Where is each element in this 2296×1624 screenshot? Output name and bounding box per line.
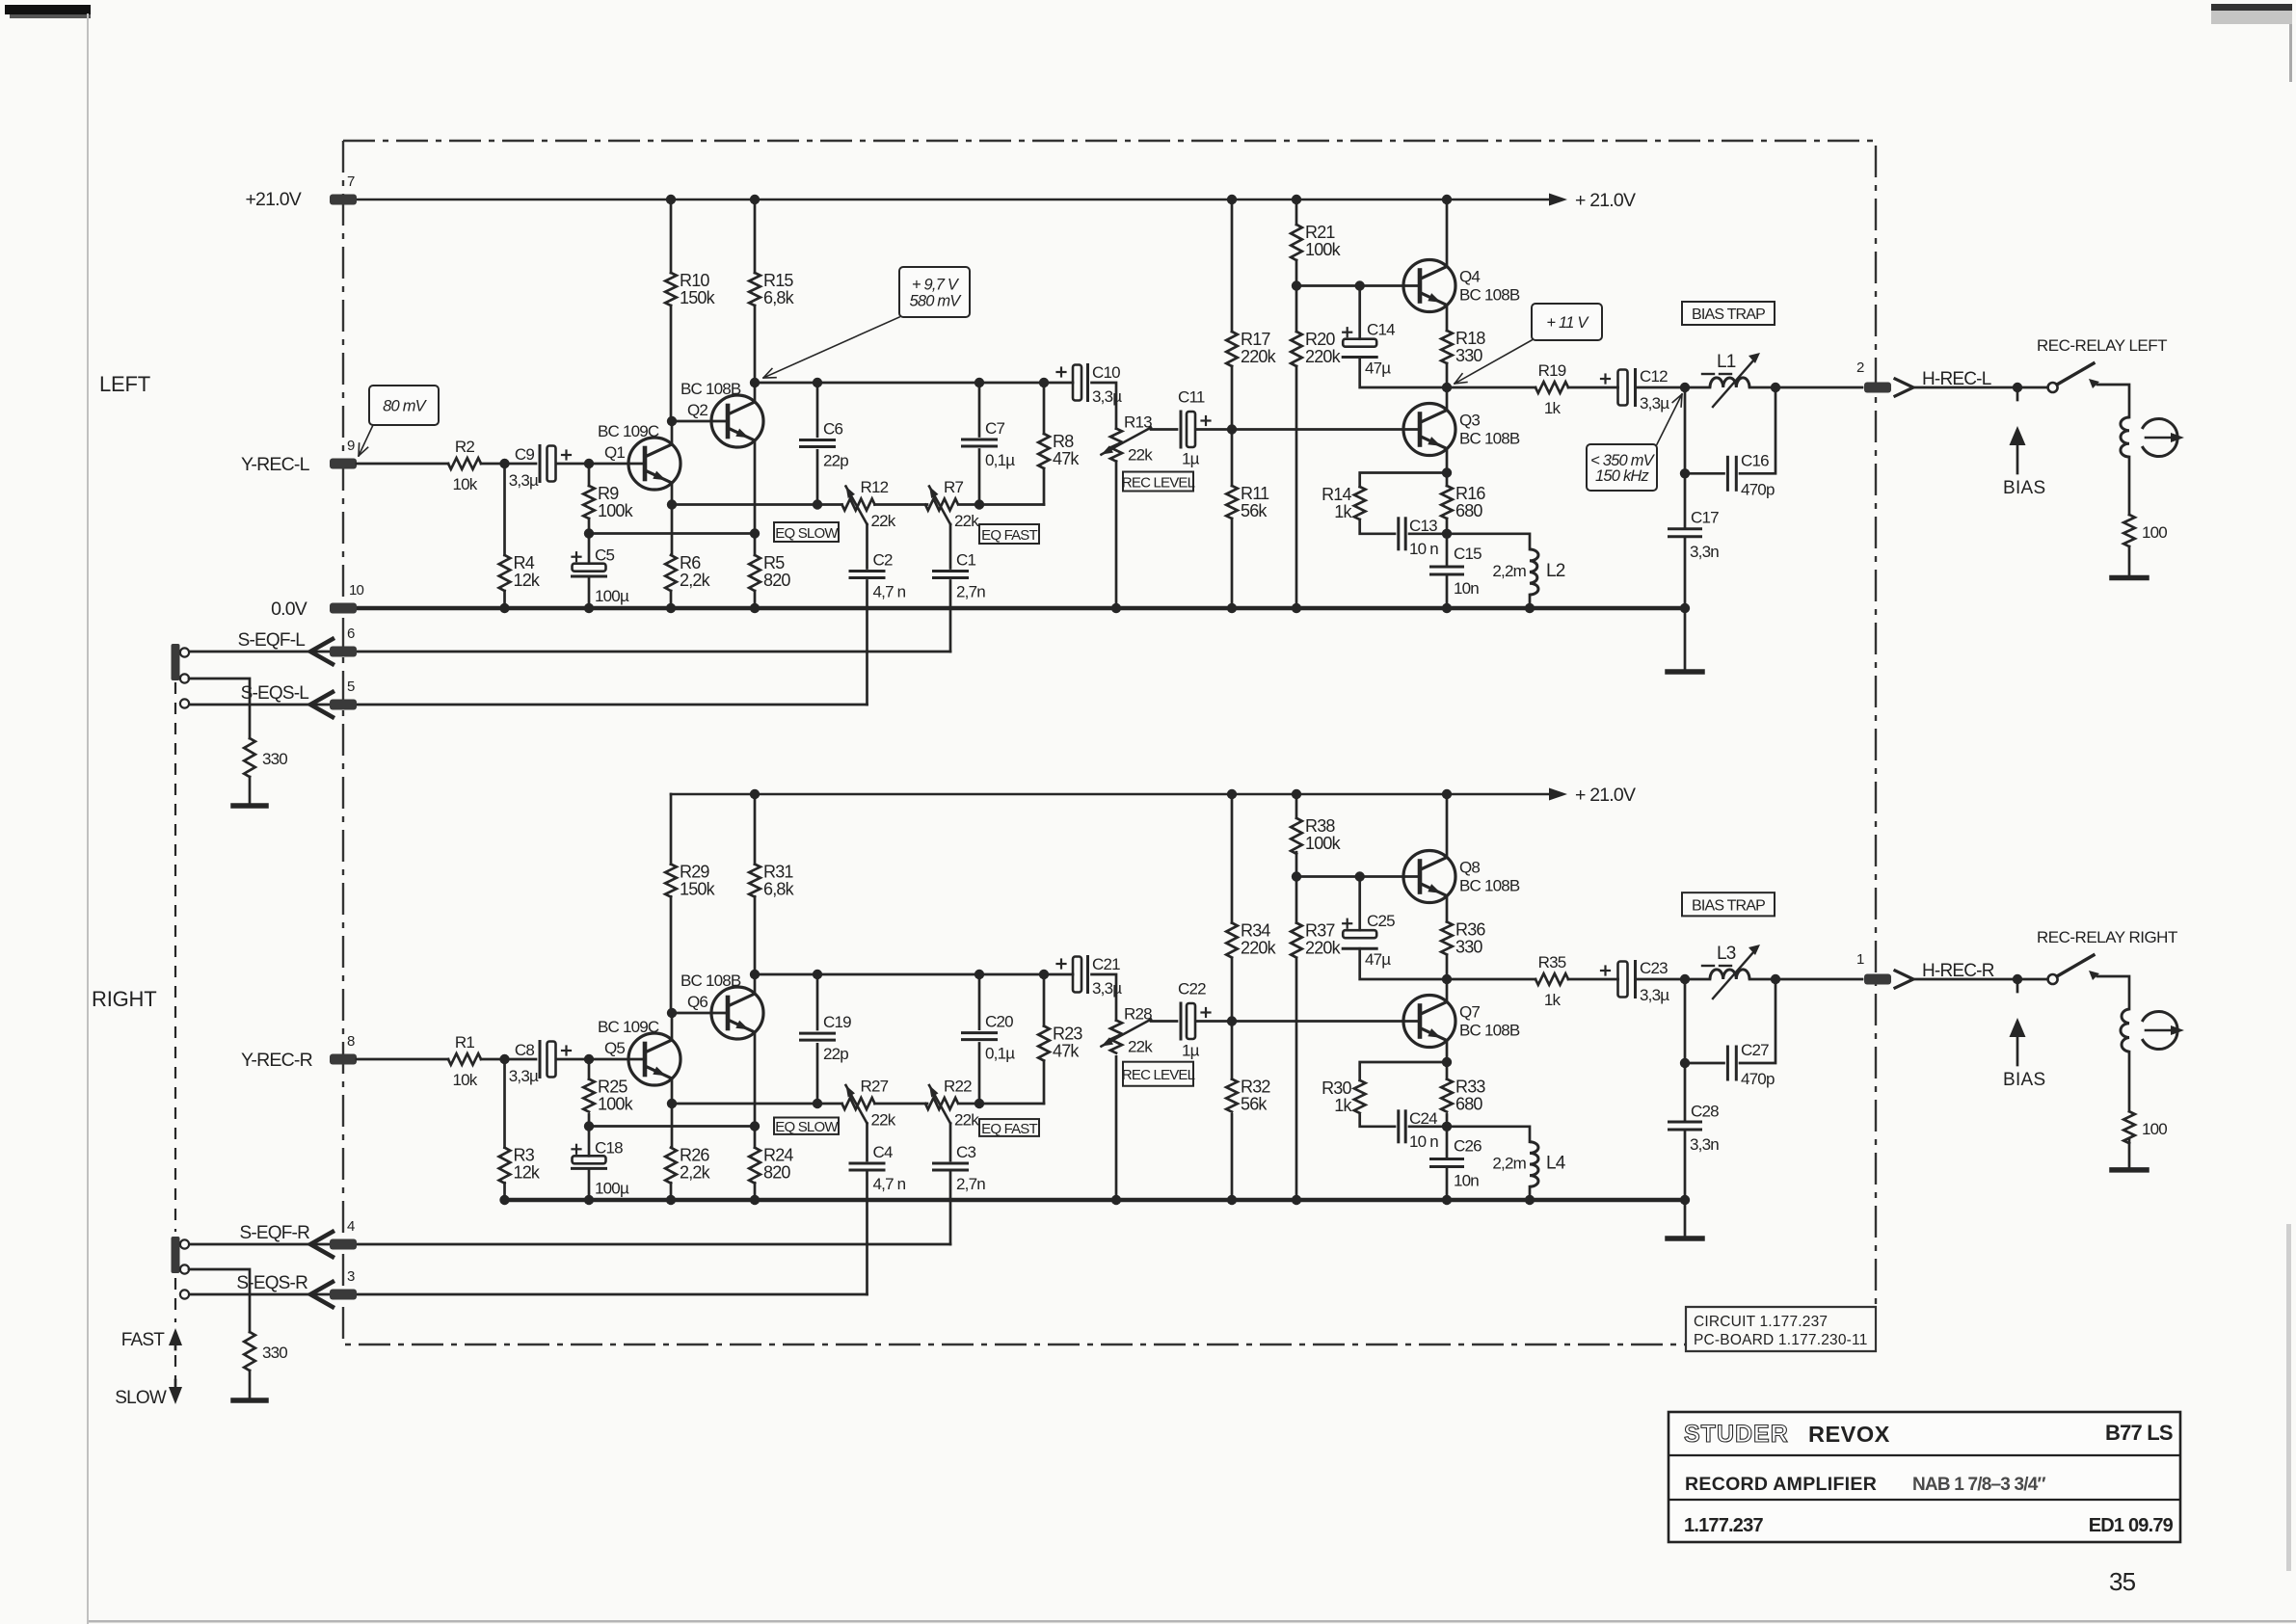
capacitor C14 (1343, 339, 1376, 347)
junction Rb2/0V (1227, 1195, 1237, 1205)
wire H-REC to relay (1913, 386, 2048, 389)
wire signal to Rb2 (1231, 430, 1234, 487)
junction Cr/0V (1442, 603, 1452, 613)
wire Ct2 top (1684, 473, 1687, 527)
junction Rb2/0V (1227, 603, 1237, 613)
svg-text:REC LEVEL: REC LEVEL (1122, 1067, 1195, 1083)
svg-text:R28: R28 (1124, 1005, 1152, 1024)
svg-text:6: 6 (347, 626, 355, 642)
arrow signal direction H-REC-L (1895, 379, 1913, 396)
svg-text:3: 3 (347, 1268, 355, 1285)
svg-text:C16: C16 (1741, 451, 1769, 469)
capacitor C26 (1431, 1158, 1463, 1160)
junction Rmid top (1039, 378, 1049, 387)
svg-text:3,3µ: 3,3µ (1640, 394, 1669, 413)
relay contact arrowhead (2089, 379, 2099, 388)
transistor Q3 (1403, 404, 1455, 456)
ground head L (2112, 575, 2147, 581)
wire Rc1 to Q1 collector node (670, 306, 673, 421)
resistor R6 (665, 555, 677, 591)
svg-text:REVOX: REVOX (1808, 1422, 1890, 1447)
bias arrowhead (2010, 1018, 2026, 1037)
transistor Q6 (711, 987, 763, 1039)
potentiometer R7 wiper (929, 487, 950, 525)
wire Rin to Cin (481, 1058, 536, 1061)
terminal pin 5 (S-EQS-L) (330, 700, 357, 710)
svg-text:10k: 10k (452, 475, 477, 493)
wire Q1 collector (671, 1013, 674, 1040)
terminal pin 9 (Y-REC-L) (330, 459, 357, 469)
wire Qo emitter (1446, 1041, 1449, 1063)
terminal pin 2 (H-REC-L) (1864, 383, 1891, 393)
svg-text:L4: L4 (1546, 1154, 1566, 1174)
svg-text:R13: R13 (1124, 413, 1152, 432)
label box BIAS TRAP (1682, 302, 1775, 325)
svg-text:C9: C9 (515, 445, 534, 464)
svg-text:3,3µ: 3,3µ (509, 471, 539, 490)
svg-text:R9: R9 (598, 484, 619, 503)
arrow S-EQS-L pin (310, 692, 333, 717)
junction Rmid top (1039, 970, 1049, 979)
terminal pin 3 (S-EQS-R) (330, 1290, 357, 1300)
wire Rsh to 0V (503, 591, 506, 608)
svg-text:820: 820 (763, 1163, 790, 1183)
wire pot line (672, 1103, 842, 1105)
resistor R17 (1226, 332, 1238, 366)
wire trap node down (1684, 979, 1687, 1063)
capacitor C27 (1726, 1047, 1729, 1079)
junction Rb4/0V (1292, 1195, 1301, 1205)
svg-text:FAST: FAST (121, 1330, 166, 1350)
wire Rc1 to Q1 collector node (670, 896, 673, 1013)
wire input node to Rsh (503, 464, 506, 555)
junction Cin/Rfb (584, 1054, 594, 1064)
capacitor C18 (573, 1156, 606, 1163)
capacitor C17 (1669, 527, 1701, 530)
junction Rb1/Rb2 on signal (1227, 424, 1237, 434)
wire Rb4 to 0V (1295, 366, 1298, 608)
svg-text:100k: 100k (598, 501, 634, 520)
wire Rin to Cin (481, 463, 536, 466)
wire Re2 to 0V (754, 1183, 757, 1200)
wire Cc top (816, 383, 819, 437)
wire Rb3 to base node (1295, 260, 1298, 286)
junction Cb/base (1355, 871, 1365, 881)
callout <350mV 150kHz (1587, 444, 1657, 491)
junction rail/Rb1 (1227, 195, 1237, 204)
svg-text:EQ SLOW: EQ SLOW (775, 1119, 839, 1135)
svg-text:R3: R3 (514, 1146, 535, 1165)
bias injection arrow (2016, 387, 2019, 400)
svg-text:220k: 220k (1241, 939, 1277, 958)
svg-text:R18: R18 (1455, 329, 1485, 348)
resistor R1 (448, 1053, 481, 1065)
wire trap node to L (1685, 978, 1710, 981)
wire Ce to 0V (588, 1168, 591, 1200)
svg-text:470p: 470p (1741, 1070, 1775, 1088)
wire Rc2 to Q2 collector (754, 306, 757, 383)
resistor R34 (1226, 923, 1238, 958)
wire PotS wiper to CnS (866, 1124, 868, 1161)
svg-text:R38: R38 (1305, 816, 1335, 836)
svg-text:9: 9 (347, 438, 355, 454)
wire Q2 emitter leg (754, 441, 757, 555)
relay switch REC-RELAY LEFT (2048, 383, 2058, 392)
wire input node to Rsh (503, 1059, 506, 1148)
resistor R18 (1441, 331, 1453, 363)
svg-text:R5: R5 (763, 553, 785, 572)
resistor R20 (1291, 332, 1302, 366)
wire PotL wiper to Cser (1151, 428, 1177, 431)
svg-text:22k: 22k (1128, 446, 1153, 465)
potentiometer R28 (REC LEVEL) wiper (1102, 1020, 1152, 1047)
wire pole to 330 resistor (189, 1269, 250, 1332)
resistor 100 (L) (2123, 515, 2135, 546)
resistor R16 (1441, 486, 1453, 519)
resistor R36 (1441, 921, 1453, 954)
wire Qo emitter to Re3 (1446, 473, 1449, 487)
junction Rb3/base (1292, 871, 1301, 881)
wire S-EQS-R (189, 1293, 868, 1296)
junction Q1coll/Q2base (667, 1008, 677, 1018)
junction 0V rail / bias trap ground (1680, 603, 1690, 613)
svg-text:R34: R34 (1241, 921, 1270, 941)
wire pole to 330 resistor (189, 679, 250, 738)
resistor R3 (499, 1148, 511, 1184)
junction bias injection (2013, 383, 2022, 392)
ground bias trap L (1668, 669, 1702, 675)
svg-text:C28: C28 (1691, 1103, 1719, 1121)
capacitor C6 (801, 439, 835, 441)
wire trap node to L (1685, 386, 1710, 389)
wire Qo emitter (1446, 449, 1449, 473)
wire S-EQF-L (189, 651, 950, 653)
wire Lr to 0V (1529, 595, 1532, 608)
inductor L4 (1530, 1142, 1538, 1186)
svg-text:C24: C24 (1409, 1109, 1437, 1128)
svg-text:2,2m: 2,2m (1492, 1155, 1526, 1173)
svg-text:BC 108B: BC 108B (1459, 1022, 1520, 1040)
wire H-REC to relay (1913, 978, 2048, 981)
scan mark top-left black bar (5, 5, 91, 14)
record head symbol R (2142, 1012, 2177, 1050)
junction Re2/0V (750, 1195, 760, 1205)
potentiometer R12 wiper (846, 487, 868, 525)
wire Q1 emitter to Re1 (671, 1104, 674, 1148)
adjust arrow L1 (1713, 359, 1754, 407)
capacitor C7 (963, 439, 997, 441)
wire relay to head (2097, 976, 2129, 1009)
capacitor C8 (539, 1042, 542, 1078)
svg-text:EQ FAST: EQ FAST (981, 1121, 1037, 1137)
svg-text:ED1 09.79: ED1 09.79 (2089, 1515, 2174, 1536)
wire Rb2 to 0V (1231, 519, 1234, 608)
svg-text:R20: R20 (1305, 330, 1335, 349)
resistor R26 (665, 1148, 677, 1184)
wire Rb4 to 0V (1295, 958, 1298, 1200)
junction Q1emitter/potline (667, 499, 677, 509)
svg-text:1k: 1k (1334, 502, 1352, 521)
svg-text:3,3µ: 3,3µ (1640, 986, 1669, 1004)
wire emitter node to Rr (1360, 1062, 1447, 1080)
junction rail/Rc2 (750, 195, 760, 204)
terminal pin 10 (0V) (330, 603, 357, 614)
wire to Rfb (588, 464, 591, 486)
wire output to Rout (1447, 978, 1535, 981)
wire S-EQF-R (189, 1243, 950, 1246)
svg-text:Q3: Q3 (1459, 412, 1480, 430)
wire CnF down to S-EQF (949, 581, 952, 652)
svg-text:R26: R26 (680, 1146, 709, 1165)
svg-text:BC 108B: BC 108B (1459, 430, 1520, 448)
wire Q2 base (672, 1012, 727, 1015)
junction bias injection (2013, 974, 2022, 984)
wire Qef base (1296, 875, 1420, 878)
wire rail to Rb3 (1295, 794, 1298, 818)
terminal pin 7 (+21V) (330, 195, 357, 205)
resistor R38 (1291, 818, 1302, 854)
arrow S-EQF-L pin (310, 639, 333, 664)
bias injection arrow (2016, 979, 2019, 992)
svg-text:100µ: 100µ (595, 587, 629, 605)
wire rail to Rb1 (1231, 794, 1234, 923)
junction input/Rsh (499, 459, 509, 468)
label box REC LEVEL (1123, 1062, 1193, 1086)
title block frame (1669, 1412, 2180, 1542)
wire node to Lr (1447, 1127, 1530, 1142)
capacitor C20 (963, 1031, 997, 1034)
svg-text:100µ: 100µ (595, 1179, 629, 1197)
svg-text:470p: 470p (1741, 480, 1775, 498)
wire Re3 to node (1446, 519, 1449, 534)
callout +11V (1532, 304, 1602, 340)
svg-text:680: 680 (1455, 1095, 1482, 1114)
relay contact arrowhead (2089, 971, 2099, 980)
wire output to Rout (1447, 386, 1535, 389)
wire Rout to Cout2 (1568, 978, 1618, 981)
wire Qo emitter to Re3 (1446, 1062, 1449, 1079)
eq switch fast contact (180, 1239, 189, 1248)
wire Ct2 top (1684, 1063, 1687, 1121)
wire base to Cb (1358, 286, 1361, 339)
capacitor C25 (1343, 930, 1376, 938)
resistor R19 (1535, 382, 1568, 393)
svg-text:Q2: Q2 (687, 401, 707, 419)
svg-text:1k: 1k (1544, 399, 1562, 417)
wire +21 to Rc1 (670, 200, 673, 273)
svg-text:C7: C7 (985, 419, 1004, 438)
wire Ct1 right up (1740, 979, 1775, 1063)
svg-text:R37: R37 (1305, 921, 1335, 941)
svg-text:150k: 150k (680, 288, 716, 307)
svg-text:220k: 220k (1305, 939, 1342, 958)
svg-text:Q8: Q8 (1459, 859, 1480, 877)
wire 330 to ground (249, 1371, 252, 1398)
svg-text:EQ FAST: EQ FAST (981, 527, 1037, 544)
resistor R35 (1535, 973, 1568, 985)
svg-text:1k: 1k (1334, 1096, 1352, 1115)
wire Y-REC input (357, 1058, 448, 1061)
eq switch slow contact (180, 1290, 189, 1298)
wire Rsh to 0V (503, 1183, 506, 1200)
svg-text:22k: 22k (1128, 1038, 1153, 1056)
wire base node to Rb4 (1295, 286, 1298, 333)
svg-text:C1: C1 (956, 551, 975, 570)
svg-text:R36: R36 (1455, 919, 1485, 939)
wire trap to pin (1775, 978, 1862, 981)
svg-text:REC-RELAY LEFT: REC-RELAY LEFT (2037, 336, 2167, 355)
capacitor C22 (1180, 1003, 1183, 1039)
wire CnF down to S-EQF (949, 1173, 952, 1244)
resistor R15 (749, 273, 761, 306)
junction Lr/0V (1525, 1195, 1535, 1205)
label box EQ FAST (979, 524, 1039, 544)
svg-text:22k: 22k (871, 512, 896, 530)
potentiometer R22 body (925, 1098, 958, 1109)
wire trap to pin (1775, 386, 1862, 389)
svg-text:+21.0V: +21.0V (245, 189, 301, 210)
wire S-EQS-L (189, 704, 868, 706)
capacitor C1 (934, 570, 968, 572)
svg-text:2,7n: 2,7n (956, 583, 985, 601)
capacitor C4 (850, 1162, 884, 1165)
svg-text:RIGHT: RIGHT (92, 987, 156, 1011)
arrowhead L1 (1749, 353, 1760, 363)
junction Cc top (813, 970, 822, 979)
svg-text:C25: C25 (1367, 912, 1395, 930)
junction Ct1 left (1680, 1058, 1690, 1068)
capacitor C15 (1431, 566, 1463, 569)
wire Rmid top (1043, 974, 1046, 1026)
wire Rmid top (1043, 383, 1046, 434)
svg-text:C14: C14 (1367, 321, 1395, 339)
wire feedback to Q2 emitter (589, 532, 755, 535)
circuit id box (1686, 1307, 1876, 1351)
svg-text:3,3µ: 3,3µ (509, 1067, 539, 1085)
eq switch linkage dashed line (174, 682, 176, 1380)
svg-text:REC-RELAY RIGHT: REC-RELAY RIGHT (2037, 928, 2177, 946)
svg-text:4,7 n: 4,7 n (873, 583, 906, 601)
svg-text:6,8k: 6,8k (763, 288, 795, 307)
junction trap right (1771, 974, 1780, 984)
wire PotL bottom to 0V (1115, 1056, 1118, 1200)
svg-text:R1: R1 (455, 1033, 474, 1052)
svg-text:R7: R7 (944, 478, 963, 496)
svg-text:1: 1 (1856, 951, 1864, 968)
svg-text:R15: R15 (763, 271, 793, 290)
wire Cb to output node (1360, 358, 1447, 388)
wire PotS wiper to CnS (866, 524, 868, 569)
wire 0V rail right (505, 1198, 1686, 1203)
wire Rfb to feedback node (588, 519, 591, 534)
svg-text:330: 330 (262, 750, 287, 768)
svg-text:2,2m: 2,2m (1492, 562, 1526, 580)
resistor R4 (499, 555, 511, 591)
wire head to R100 (2128, 1052, 2131, 1111)
wire Qef emitter to Ref (1446, 306, 1449, 332)
svg-text:56k: 56k (1241, 501, 1268, 520)
wire feedback to Q2 emitter (589, 1125, 755, 1128)
junction trap left (1680, 383, 1690, 392)
resistor R14 (1354, 487, 1366, 519)
wire CnS down to S-EQS (866, 581, 868, 706)
svg-text:330: 330 (1455, 937, 1482, 956)
wire Cser to Qo base (1197, 428, 1420, 431)
junction Re1/0V (666, 603, 676, 613)
svg-text:S-EQF-R: S-EQF-R (239, 1223, 309, 1243)
scan edge bottom grey line (89, 1620, 2296, 1623)
wire L to trap right (1749, 386, 1775, 389)
wire head to R100 (2128, 457, 2131, 515)
capacitor C3 (934, 1162, 968, 1165)
wire PotF wiper to CnF (949, 1124, 952, 1161)
svg-text:R12: R12 (861, 478, 889, 496)
wire +21V rail right (671, 793, 1550, 796)
svg-text:1k: 1k (1544, 991, 1562, 1009)
terminal pin 1 (H-REC-R) (1864, 974, 1891, 985)
svg-text:22p: 22p (823, 452, 848, 470)
svg-text:R31: R31 (763, 863, 793, 882)
wire Cin to Q1 base (557, 463, 645, 466)
wire collector line (755, 382, 1073, 385)
wire Re1 to 0V (670, 1183, 673, 1200)
resistor 330 (left) (244, 738, 255, 777)
wire Q2 base (672, 420, 727, 423)
svg-text:+ 11 V: + 11 V (1546, 314, 1589, 332)
svg-text:35: 35 (2109, 1567, 2136, 1596)
svg-text:R14: R14 (1322, 485, 1351, 504)
wire Ct1 left (1685, 472, 1724, 475)
svg-text:0.0V: 0.0V (271, 599, 307, 620)
wire Rb3 to base node (1295, 852, 1298, 876)
svg-text:R27: R27 (861, 1078, 889, 1096)
wire 330 to ground (249, 777, 252, 804)
junction rail/Rb1 (1227, 789, 1237, 799)
junction fb/Q2emitter (750, 528, 760, 538)
potentiometer R22 wiper (929, 1085, 950, 1124)
arrowhead L3 (1749, 945, 1760, 955)
svg-text:820: 820 (763, 571, 790, 590)
wire Rb1 to signal (1231, 958, 1234, 1022)
wire Rr to Cf (1360, 1115, 1395, 1127)
svg-text:0,1µ: 0,1µ (985, 1045, 1015, 1063)
wire pot line (672, 503, 842, 506)
svg-text:C21: C21 (1092, 955, 1120, 973)
junction Cc top (813, 378, 822, 387)
junction Q1emitter/potline (667, 1099, 677, 1108)
junction rail/Qef collector (1442, 195, 1452, 204)
wire Cf to Re3 bottom node (1409, 1125, 1447, 1128)
junction Ct1 left (1680, 468, 1690, 478)
eq switch pole contact (180, 1265, 189, 1273)
eq switch slow contact (180, 699, 189, 707)
wire +21V rail (355, 199, 1550, 201)
svg-text:47k: 47k (1053, 449, 1080, 468)
wire Cmid bottom (978, 450, 981, 505)
svg-text:L3: L3 (1717, 944, 1736, 964)
wire node to Lr (1447, 534, 1530, 549)
potentiometer R28 (REC LEVEL) body (1110, 1021, 1122, 1053)
terminal pin 8 (Y-REC-R) (330, 1054, 357, 1065)
svg-text:C15: C15 (1454, 545, 1482, 563)
svg-text:BIAS: BIAS (2003, 478, 2046, 498)
svg-text:C26: C26 (1454, 1137, 1482, 1156)
wire Q1 emitter to Re1 (671, 505, 674, 556)
svg-text:2: 2 (1856, 359, 1864, 376)
capacitor C10 (1086, 365, 1089, 401)
wire rail to Rc2 (754, 200, 757, 273)
wire feedback node to Ce (588, 1127, 591, 1157)
